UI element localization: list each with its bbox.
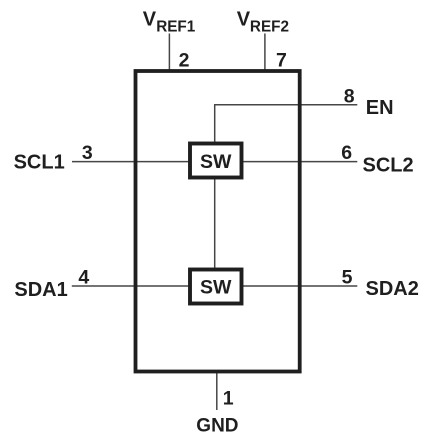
device body rectangle [136, 71, 300, 372]
svg-text:EN: EN [366, 97, 394, 119]
switch SW (SDA) box [190, 270, 242, 304]
svg-text:SCL1: SCL1 [14, 152, 65, 174]
svg-text:6: 6 [341, 142, 352, 164]
wire: VREF2 pin 7 lead [264, 34, 266, 72]
svg-text:V: V [143, 9, 157, 31]
svg-text:5: 5 [342, 267, 353, 289]
wire: GND pin 1 lead [216, 372, 218, 411]
svg-text:SDA1: SDA1 [14, 279, 67, 301]
svg-text:4: 4 [78, 266, 89, 288]
wire: SCL1 to SCL2 horizontal line [72, 161, 357, 163]
svg-text:1: 1 [223, 387, 234, 409]
wire: SDA1 to SDA2 horizontal line [72, 285, 358, 287]
wire: EN pin 8 horizontal line [214, 104, 357, 106]
svg-text:8: 8 [344, 85, 355, 107]
wire: VREF1 pin 2 lead [168, 34, 170, 72]
svg-text:SW: SW [200, 277, 232, 299]
svg-text:SCL2: SCL2 [363, 154, 414, 176]
switch SW (SCL) box [190, 144, 242, 178]
svg-text:GND: GND [196, 416, 238, 437]
svg-text:REF1: REF1 [156, 18, 196, 35]
svg-text:3: 3 [82, 142, 93, 164]
svg-text:SDA2: SDA2 [366, 278, 419, 300]
svg-text:REF2: REF2 [250, 18, 289, 35]
wire: vertical line from EN elbow through SW switches [214, 105, 216, 271]
svg-text:V: V [237, 9, 251, 31]
svg-text:SW: SW [200, 151, 232, 173]
svg-text:7: 7 [276, 49, 287, 71]
svg-text:2: 2 [179, 49, 190, 71]
